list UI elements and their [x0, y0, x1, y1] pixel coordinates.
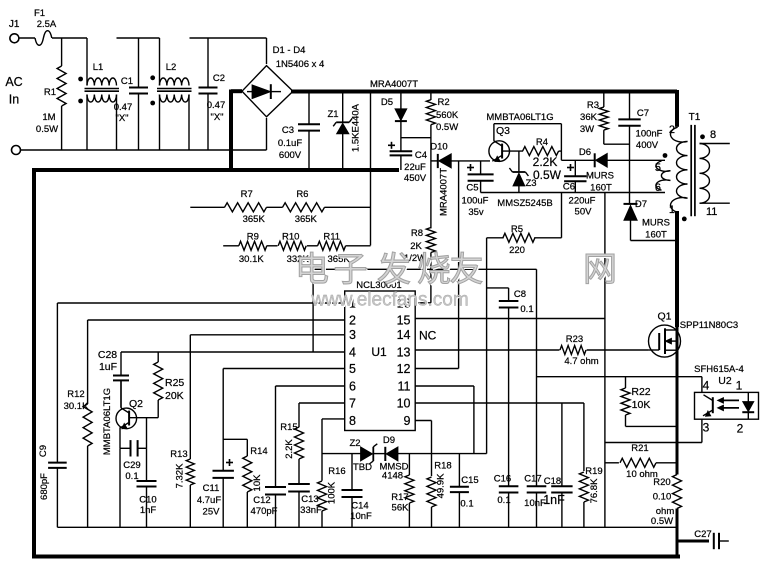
wire U1 pin13 line [415, 349, 536, 351]
choke L1 [78, 38, 119, 150]
svg-text:0.47: 0.47 [207, 100, 226, 111]
capacitor C13 [288, 484, 322, 527]
svg-text:1: 1 [669, 204, 675, 216]
svg-text:56K: 56K [392, 503, 410, 514]
svg-text:3W: 3W [580, 124, 594, 135]
svg-text:SFH615A-4: SFH615A-4 [694, 364, 744, 375]
svg-text:"X": "X" [210, 112, 223, 123]
svg-text:R1: R1 [44, 87, 56, 98]
svg-text:F1: F1 [34, 8, 45, 19]
wire U1 pin12 line [415, 368, 458, 370]
wire U1 pin1 line [57, 302, 344, 304]
resistor R3 [580, 94, 630, 145]
TVS Z1 [327, 94, 361, 169]
svg-text:D7: D7 [635, 199, 647, 210]
capacitor C3 [278, 94, 320, 169]
svg-text:9: 9 [404, 414, 411, 428]
svg-text:R21: R21 [631, 443, 648, 454]
svg-text:22uF: 22uF [404, 162, 426, 173]
wire U1 pin3 line [190, 334, 344, 336]
svg-text:2: 2 [737, 422, 744, 436]
wire B+ thick bus [291, 90, 677, 127]
svg-text:560K: 560K [436, 110, 459, 121]
svg-text:0.47: 0.47 [114, 102, 133, 113]
resistor R18 [427, 461, 452, 528]
capacitor C18 [543, 403, 572, 527]
svg-text:烧: 烧 [417, 251, 451, 289]
svg-text:R12: R12 [67, 389, 84, 400]
svg-text:MRA4007T: MRA4007T [370, 79, 418, 90]
svg-text:T1: T1 [689, 112, 701, 123]
resistor R6 [283, 189, 325, 225]
svg-text:J1: J1 [9, 19, 20, 30]
svg-text:L2: L2 [166, 62, 177, 73]
svg-text:R20: R20 [653, 477, 670, 488]
capacitor C29 [120, 418, 147, 482]
capacitor C4 [388, 142, 427, 184]
svg-text:电: 电 [295, 251, 329, 289]
svg-text:4.7 ohm: 4.7 ohm [564, 356, 598, 367]
capacitor C27 [679, 529, 729, 549]
svg-text:C14: C14 [351, 501, 368, 512]
wire U1 pin2 line [88, 319, 345, 321]
svg-text:U1: U1 [371, 345, 387, 359]
svg-text:AC: AC [5, 75, 22, 89]
resistor R22 [621, 377, 677, 427]
svg-text:C5: C5 [466, 183, 478, 194]
svg-text:160T: 160T [590, 183, 612, 194]
svg-text:C4: C4 [415, 150, 427, 161]
resistor R20 [651, 475, 682, 528]
wire R2-C4 junction [401, 137, 431, 139]
svg-text:R13: R13 [170, 449, 187, 460]
capacitor C8 [487, 288, 534, 319]
svg-text:R19: R19 [585, 466, 602, 477]
resistor R25 [154, 352, 185, 418]
svg-text:160T: 160T [645, 230, 667, 241]
wire VCC column [458, 161, 460, 369]
svg-text:25V: 25V [203, 507, 221, 518]
wire opto emitter line [605, 442, 702, 444]
wire AC bottom line [21, 118, 267, 150]
svg-text:C18: C18 [544, 476, 561, 487]
resistor R17 [391, 454, 414, 528]
resistor R16 [318, 466, 346, 527]
resistor R2 [426, 94, 458, 229]
svg-text:MMBTA06LT1G: MMBTA06LT1G [102, 388, 113, 455]
wire divider row2 [223, 245, 370, 247]
capacitor C11 [197, 369, 234, 528]
svg-text:D10: D10 [430, 142, 447, 153]
svg-text:4.7uF: 4.7uF [197, 495, 221, 506]
svg-text:R7: R7 [241, 189, 253, 200]
diode D10 [430, 142, 490, 217]
svg-text:100nF: 100nF [636, 129, 663, 140]
svg-text:L1: L1 [93, 62, 104, 73]
capacitor C10 [137, 448, 157, 527]
resistor R9 [239, 232, 267, 266]
wire primary ground column [604, 193, 606, 528]
wire feedback node [313, 269, 536, 486]
svg-text:1: 1 [736, 379, 743, 393]
svg-text:2.2K: 2.2K [284, 439, 295, 459]
svg-text:C6: C6 [563, 182, 575, 193]
svg-text:1nF: 1nF [140, 505, 157, 516]
capacitor C1 [114, 38, 148, 150]
svg-text:8: 8 [710, 129, 716, 141]
capacitor C16 [494, 319, 519, 528]
svg-text:Z3: Z3 [525, 178, 536, 189]
wire AC top line [52, 38, 267, 64]
diode D5 [381, 94, 407, 152]
wire gate feedback line [537, 376, 702, 378]
wire U1 pin6 line [276, 386, 345, 487]
svg-text:10: 10 [397, 396, 411, 410]
svg-text:U2: U2 [718, 375, 732, 387]
svg-text:MURS: MURS [642, 218, 670, 229]
wire ramp row [322, 453, 487, 455]
svg-text:49.9K: 49.9K [436, 473, 447, 498]
svg-text:50V: 50V [575, 207, 593, 218]
svg-text:4148: 4148 [382, 471, 403, 482]
capacitor C9 [38, 303, 67, 527]
wire snubber to drain [631, 240, 678, 242]
svg-text:C27: C27 [694, 529, 711, 540]
svg-text:6: 6 [655, 182, 661, 194]
svg-text:SPP11N80C3: SPP11N80C3 [680, 320, 738, 331]
svg-text:0.5W: 0.5W [36, 124, 58, 135]
bridge rectifier D1-D4 [242, 45, 324, 117]
svg-text:7: 7 [349, 396, 356, 410]
fuse F1 [19, 8, 57, 45]
svg-text:0.5W: 0.5W [436, 122, 458, 133]
svg-text:12: 12 [397, 362, 411, 376]
resistor R4 [523, 137, 562, 182]
svg-text:R14: R14 [250, 446, 267, 457]
svg-text:发: 发 [377, 251, 411, 289]
svg-text:R17: R17 [391, 492, 408, 503]
capacitor C17 [524, 474, 546, 528]
svg-text:C12: C12 [253, 495, 270, 506]
svg-text:0.1uF: 0.1uF [278, 138, 302, 149]
choke L2 [150, 38, 191, 150]
svg-text:MRA4007T: MRA4007T [438, 168, 449, 216]
wire U1 pin7 line [299, 403, 345, 427]
svg-text:D1 - D4: D1 - D4 [273, 45, 306, 56]
svg-text:680pF: 680pF [39, 473, 50, 500]
resistor R8 [404, 228, 435, 303]
resistor R12 [64, 320, 93, 527]
svg-text:R18: R18 [434, 461, 451, 472]
wire U1 pin10 line [415, 402, 584, 404]
resistor R14 [223, 439, 268, 527]
op-amp U1 (NCL30001 controller) [345, 280, 437, 431]
svg-text:2: 2 [349, 313, 356, 327]
svg-text:Q2: Q2 [129, 398, 143, 410]
svg-text:C17: C17 [524, 474, 541, 485]
svg-text:C28: C28 [98, 349, 117, 361]
svg-text:8: 8 [349, 414, 356, 428]
svg-text:C13: C13 [301, 494, 318, 505]
svg-text:76.8K: 76.8K [589, 478, 600, 503]
svg-text:R2: R2 [438, 97, 450, 108]
resistor R10 [278, 232, 309, 266]
watermark [295, 251, 619, 312]
svg-text:R10: R10 [282, 232, 299, 243]
zener Z3 [497, 151, 552, 209]
svg-text:15: 15 [397, 313, 411, 327]
resistor R13 [170, 335, 194, 528]
capacitor C28 [98, 349, 129, 408]
svg-text:365K: 365K [243, 214, 266, 225]
svg-text:11: 11 [706, 206, 717, 218]
resistor R15 [280, 422, 303, 484]
svg-text:13: 13 [397, 345, 411, 359]
svg-text:C7: C7 [637, 108, 649, 119]
svg-text:C11: C11 [203, 483, 220, 494]
svg-text:4: 4 [703, 379, 710, 393]
svg-text:100uF: 100uF [462, 196, 489, 207]
wire ramp column [486, 269, 488, 453]
wire U1 pin8 line [322, 419, 345, 481]
wire divider row1 [190, 206, 370, 208]
wire B- thick bus [32, 90, 680, 557]
svg-text:1M: 1M [42, 112, 55, 123]
transformer T1 [655, 112, 730, 327]
transistor Q3 [486, 112, 561, 162]
svg-text:3: 3 [349, 328, 356, 342]
svg-text:10nF: 10nF [350, 511, 372, 522]
svg-text:R3: R3 [587, 100, 599, 111]
svg-text:C8: C8 [514, 289, 526, 300]
svg-text:2: 2 [669, 124, 675, 136]
svg-text:友: 友 [450, 251, 484, 289]
svg-text:1N5406 x 4: 1N5406 x 4 [276, 59, 325, 70]
svg-text:365K: 365K [295, 214, 318, 225]
capacitor C15 [450, 454, 479, 528]
svg-text:MURS: MURS [586, 171, 614, 182]
wire U1 pin5 line [223, 368, 345, 370]
zener Z2 [349, 438, 377, 473]
wire U1 pin9 line [415, 421, 431, 477]
svg-text:1uF: 1uF [99, 361, 117, 373]
svg-text:R5: R5 [511, 224, 523, 235]
svg-text:C9: C9 [38, 445, 49, 457]
resistor R19 [579, 403, 602, 527]
optocoupler U2 [694, 364, 758, 443]
svg-text:R25: R25 [165, 377, 184, 389]
svg-text:1.5KE440A: 1.5KE440A [351, 103, 362, 152]
capacitor C12 [251, 487, 286, 527]
svg-text:30.1K: 30.1K [64, 401, 89, 412]
svg-text:0.5W: 0.5W [651, 516, 673, 527]
svg-text:1nF: 1nF [543, 493, 565, 507]
svg-text:30.1K: 30.1K [239, 254, 264, 265]
svg-text:220uF: 220uF [569, 196, 596, 207]
svg-text:10K: 10K [632, 399, 651, 411]
wire HV divider column [370, 94, 372, 246]
diode D9 [379, 435, 408, 482]
svg-text:Z2: Z2 [349, 438, 360, 449]
wire U1 pin4 line [121, 351, 345, 353]
svg-text:4: 4 [349, 345, 356, 359]
svg-text:网: 网 [583, 251, 617, 289]
svg-text:D5: D5 [381, 97, 393, 108]
wire bottom signal rail [57, 526, 677, 528]
resistor R7 [225, 189, 267, 225]
svg-text:MMBTA06LT1G: MMBTA06LT1G [486, 112, 553, 123]
svg-text:R8: R8 [411, 228, 423, 239]
svg-text:0.1: 0.1 [497, 495, 510, 506]
diode D6 [561, 147, 665, 194]
svg-text:100K: 100K [327, 481, 338, 504]
svg-text:"X": "X" [115, 113, 128, 124]
svg-text:0.1: 0.1 [460, 499, 473, 510]
svg-text:R15: R15 [280, 422, 297, 433]
svg-text:5: 5 [349, 362, 356, 376]
node AC In [5, 75, 22, 107]
svg-text:C2: C2 [213, 73, 225, 84]
resistor R23 [537, 334, 649, 367]
svg-text:MMSZ5245B: MMSZ5245B [497, 198, 552, 209]
svg-text:Z1: Z1 [327, 109, 338, 120]
svg-text:20K: 20K [165, 390, 184, 402]
svg-text:0.5W: 0.5W [533, 168, 562, 182]
MOSFET Q1 [649, 311, 739, 358]
svg-text:TBD: TBD [353, 462, 372, 473]
svg-text:D9: D9 [383, 435, 395, 446]
svg-text:6: 6 [349, 379, 356, 393]
wire U1 pin11 line [415, 386, 474, 454]
svg-text:14: 14 [397, 328, 411, 342]
svg-text:C10: C10 [139, 495, 156, 506]
svg-text:R16: R16 [328, 466, 345, 477]
svg-text:11: 11 [398, 379, 411, 393]
svg-text:R23: R23 [566, 334, 583, 345]
svg-text:600V: 600V [279, 150, 302, 161]
svg-text:R22: R22 [631, 386, 650, 398]
svg-text:400V: 400V [636, 140, 659, 151]
svg-text:C1: C1 [121, 76, 133, 87]
svg-text:2.5A: 2.5A [37, 19, 57, 30]
diode D7 [624, 199, 670, 241]
wire Q2 emitter to ground [119, 448, 121, 527]
svg-text:子: 子 [334, 251, 368, 289]
capacitor C14 [342, 454, 373, 528]
svg-text:0.1: 0.1 [520, 304, 533, 315]
svg-text:3: 3 [703, 421, 710, 435]
svg-text:450V: 450V [404, 173, 427, 184]
svg-text:36K: 36K [580, 112, 598, 123]
svg-text:C29: C29 [123, 460, 140, 471]
svg-text:Q1: Q1 [657, 311, 671, 323]
svg-text:In: In [9, 93, 19, 107]
svg-text:220: 220 [509, 245, 525, 256]
svg-text:R9: R9 [247, 232, 259, 243]
svg-text:5: 5 [655, 162, 661, 174]
connector J1 [9, 19, 21, 155]
wire Q1 source column [676, 325, 679, 557]
svg-text:C16: C16 [494, 474, 511, 485]
capacitor C5 [462, 161, 494, 218]
svg-text:R11: R11 [323, 232, 340, 243]
transistor Q2 [102, 380, 158, 455]
svg-text:35v: 35v [468, 207, 484, 218]
resistor R21 [605, 443, 677, 480]
capacitor C2 [199, 38, 226, 150]
wire aux ground rail [481, 192, 665, 194]
svg-text:0.10: 0.10 [653, 492, 672, 503]
svg-text:D6: D6 [579, 147, 591, 158]
resistor R11 [318, 232, 351, 266]
label MRA4007T top [370, 79, 418, 90]
svg-text:470pF: 470pF [251, 506, 278, 517]
svg-text:C15: C15 [461, 475, 478, 486]
svg-text:R6: R6 [296, 189, 308, 200]
capacitor C6 [563, 160, 596, 217]
capacitor C7 [618, 94, 662, 204]
svg-text:2.2K: 2.2K [533, 155, 558, 169]
svg-text:R4: R4 [536, 137, 548, 148]
svg-text:C3: C3 [282, 125, 294, 136]
svg-text:NC: NC [419, 329, 437, 343]
svg-text:7.32K: 7.32K [175, 463, 186, 488]
wire U1 pin15 line [415, 318, 605, 320]
resistor R5 [487, 193, 562, 270]
svg-text:www.elecfans.com: www.elecfans.com [310, 290, 468, 311]
svg-text:10K: 10K [252, 474, 263, 492]
resistor R1 [36, 38, 66, 150]
svg-text:Q3: Q3 [496, 125, 510, 137]
